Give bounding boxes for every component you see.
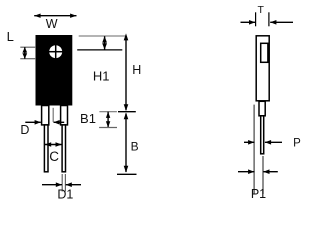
svg-text:T: T bbox=[257, 4, 264, 16]
dimension T right arrow bbox=[270, 20, 293, 25]
svg-text:D1: D1 bbox=[57, 187, 73, 201]
dimension D right arrow bbox=[54, 120, 65, 125]
dimension P left arrow bbox=[244, 140, 254, 145]
svg-text:C: C bbox=[49, 149, 59, 164]
dimension W arrow bbox=[34, 14, 76, 18]
svg-text:B: B bbox=[131, 140, 139, 154]
svg-text:P1: P1 bbox=[251, 187, 266, 201]
dimension C arrow bbox=[45, 142, 62, 147]
svg-text:D: D bbox=[20, 123, 29, 137]
extension line top of body (for H, H1) bbox=[79, 35, 126, 37]
dimension L extension lines bbox=[20, 47, 36, 59]
extension line at D right bbox=[52, 108, 54, 122]
side view lead wide stub bbox=[259, 101, 265, 116]
svg-text:H1: H1 bbox=[93, 69, 110, 84]
dimension H1 arrow bbox=[102, 36, 107, 49]
side view inner rectangle (tab) bbox=[261, 43, 268, 62]
dimension P right arrow bbox=[265, 140, 282, 145]
lead 2 wide stub bbox=[61, 106, 68, 125]
side view body outline bbox=[256, 36, 269, 101]
dimension P1 right arrow bbox=[263, 169, 278, 174]
hole crosshair vertical bbox=[55, 45, 57, 59]
dimension L arrow bbox=[22, 47, 27, 59]
extension line P1 right bbox=[262, 156, 264, 194]
dimension D1 right arrow bbox=[66, 182, 81, 187]
svg-text:B1: B1 bbox=[80, 111, 96, 126]
extension lines D1 bbox=[62, 174, 65, 192]
extension line B bottom bbox=[117, 173, 137, 175]
dimension D left arrow bbox=[25, 120, 41, 125]
lead 1 narrow bbox=[44, 125, 48, 172]
side view lead narrow bbox=[261, 116, 264, 154]
dimension B1 arrow bbox=[106, 112, 110, 128]
extension line back face (for P, P1) bbox=[253, 105, 255, 194]
lead 2 narrow bbox=[62, 125, 65, 172]
dimension T left arrow bbox=[241, 20, 256, 25]
svg-text:L: L bbox=[7, 29, 14, 44]
extension line B1 bottom bbox=[99, 127, 117, 129]
svg-text:W: W bbox=[46, 17, 58, 31]
svg-text:P: P bbox=[293, 137, 301, 149]
dimension H arrow bbox=[124, 33, 129, 111]
lead 1 wide stub bbox=[42, 106, 49, 125]
svg-text:H: H bbox=[132, 63, 141, 77]
dimension B arrow bbox=[124, 113, 129, 173]
dimension D1 left arrow bbox=[42, 182, 62, 187]
dimension T extension lines bbox=[256, 12, 269, 26]
hole crosshair horizontal bbox=[49, 51, 63, 53]
mounting hole bbox=[49, 45, 62, 58]
extension line mid (H bottom / B top / B1 top) bbox=[99, 111, 117, 113]
extension line hole center (for H1) bbox=[77, 49, 122, 51]
dimension P1 left arrow bbox=[238, 169, 254, 174]
front view body bbox=[36, 35, 73, 106]
